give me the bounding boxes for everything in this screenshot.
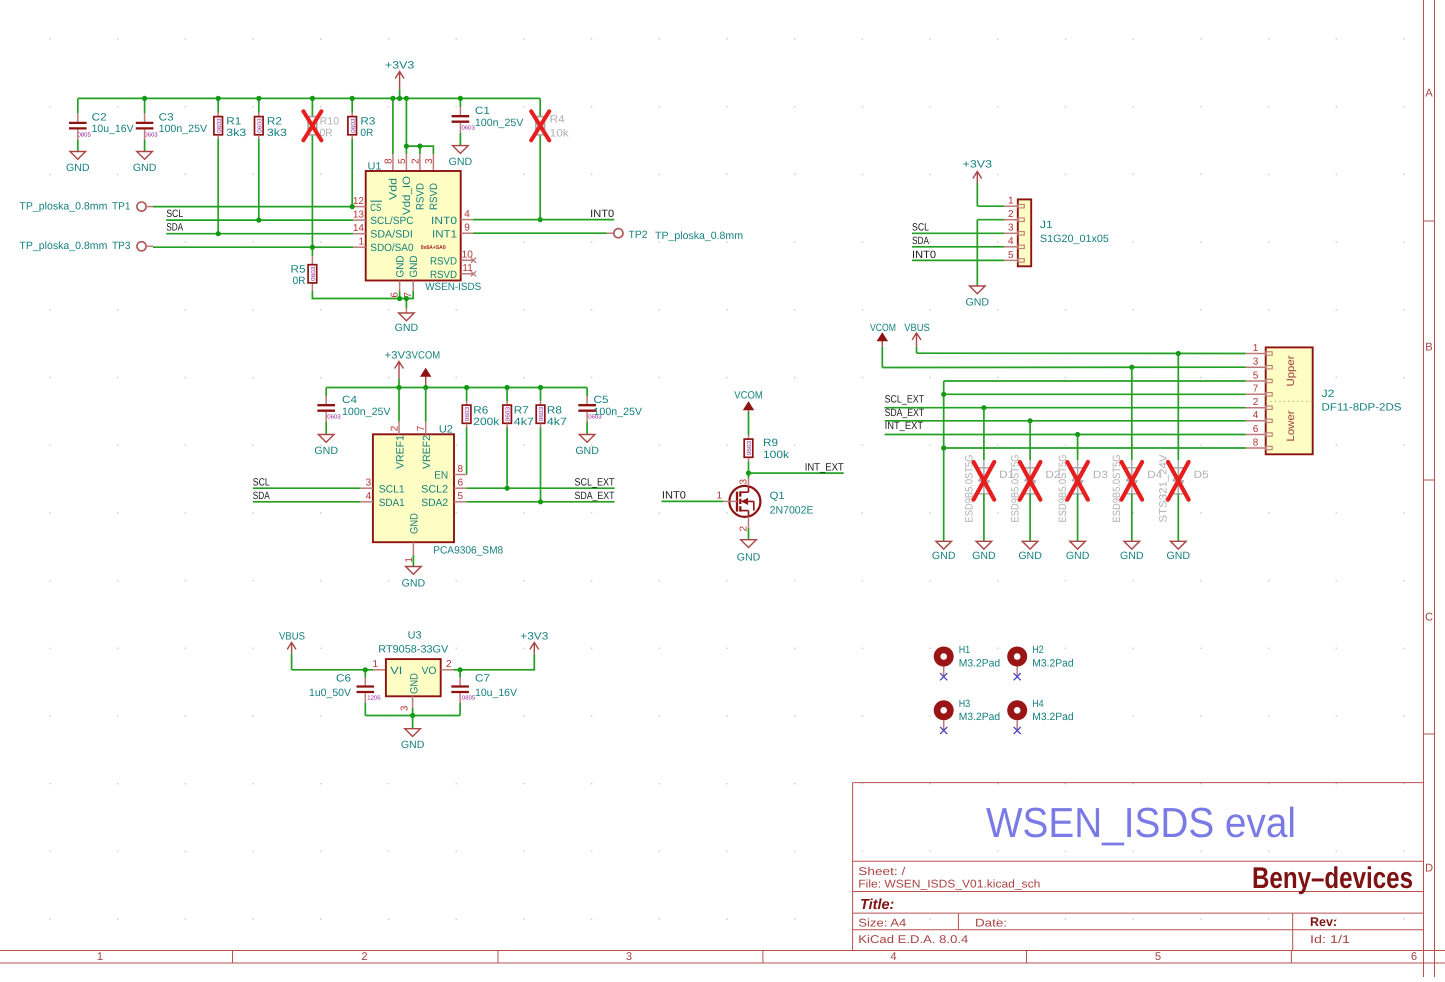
wire junction xyxy=(404,296,409,301)
wire R9 to Q1 drain xyxy=(748,473,750,478)
svg-text:2: 2 xyxy=(410,158,421,164)
resistor R2 3k3 xyxy=(258,98,260,112)
svg-text:File: WSEN_ISDS_V01.kicad_sch: File: WSEN_ISDS_V01.kicad_sch xyxy=(858,878,1040,890)
svg-text:C1: C1 xyxy=(475,105,490,117)
svg-text:GND: GND xyxy=(1167,550,1191,562)
svg-text:GND: GND xyxy=(449,156,473,168)
wire junction xyxy=(505,486,510,491)
svg-text:TP_ploska_0.8mm: TP_ploska_0.8mm xyxy=(19,240,107,252)
svg-text:2: 2 xyxy=(361,951,367,963)
svg-text:4k7: 4k7 xyxy=(547,416,567,428)
svg-text:9: 9 xyxy=(464,223,470,234)
wire R6 to EN xyxy=(466,428,468,475)
svg-text:4: 4 xyxy=(366,491,372,502)
svg-text:12: 12 xyxy=(353,196,365,207)
connector J2 DF11-8DP-2DS xyxy=(1266,347,1313,454)
svg-text:GND: GND xyxy=(66,162,90,174)
svg-text:SDO/SA0: SDO/SA0 xyxy=(370,242,413,254)
wire junction xyxy=(417,144,422,149)
wire junction xyxy=(505,385,510,390)
transistor Q1 2N7002E xyxy=(729,486,760,517)
wire junction xyxy=(410,713,415,718)
resistor R3 0R xyxy=(351,98,353,112)
svg-text:SDA2: SDA2 xyxy=(421,497,448,509)
svg-text:M3.2Pad: M3.2Pad xyxy=(1032,711,1074,723)
wire SDA (J1) xyxy=(912,246,1004,248)
svg-text:0603: 0603 xyxy=(216,118,223,133)
svg-text:GND: GND xyxy=(575,445,599,457)
svg-text:+3V3: +3V3 xyxy=(385,350,412,362)
svg-text:TP1: TP1 xyxy=(112,200,131,212)
U1 left pins 12,13,14,1 xyxy=(353,206,366,208)
svg-text:C: C xyxy=(1425,612,1433,624)
wire +3V3 top rail xyxy=(78,97,540,99)
capacitor C2 xyxy=(77,98,79,113)
svg-text:GND: GND xyxy=(401,739,425,751)
resistor R7 4k7 xyxy=(506,388,508,402)
resistor R1 3k3 xyxy=(217,98,219,112)
svg-text:INT0: INT0 xyxy=(590,208,614,220)
svg-text:100n_25V: 100n_25V xyxy=(594,406,643,418)
svg-text:R6: R6 xyxy=(473,404,488,416)
svg-text:M3.2Pad: M3.2Pad xyxy=(1032,657,1074,669)
svg-text:RSVD: RSVD xyxy=(415,183,427,210)
svg-text:GND: GND xyxy=(408,255,420,277)
svg-text:VBUS: VBUS xyxy=(279,631,305,643)
ground GND (D3) xyxy=(1070,541,1086,549)
svg-text:C2: C2 xyxy=(92,112,107,124)
diode D5 STS321_24V (DNP) xyxy=(1177,354,1179,461)
svg-text:0603: 0603 xyxy=(746,440,753,455)
svg-text:0603: 0603 xyxy=(327,413,341,420)
svg-text:VBUS: VBUS xyxy=(904,322,930,334)
wire J2 pin1 (VBUS) xyxy=(917,352,1246,354)
svg-text:GND: GND xyxy=(133,162,157,174)
svg-text:4: 4 xyxy=(1008,236,1014,247)
svg-text:7: 7 xyxy=(1253,384,1259,395)
svg-text:0603: 0603 xyxy=(350,118,357,133)
power +3V3 (top) xyxy=(399,89,401,98)
svg-text:SDA/SDI: SDA/SDI xyxy=(370,229,413,241)
testpoint TP1 xyxy=(137,202,146,211)
svg-text:13: 13 xyxy=(353,209,365,220)
svg-text:4: 4 xyxy=(464,209,470,220)
svg-text:J1: J1 xyxy=(1040,219,1053,231)
mounting hole H4 M3.2Pad xyxy=(1007,700,1027,720)
U2 left pins 3,4 xyxy=(360,487,373,489)
wire INT1 to TP2 xyxy=(473,232,607,234)
svg-text:8: 8 xyxy=(1253,437,1259,448)
mounting hole H2 M3.2Pad xyxy=(1007,647,1027,667)
svg-text:C3: C3 xyxy=(159,112,174,124)
wire junction xyxy=(464,385,469,390)
svg-text:GND: GND xyxy=(966,297,990,309)
IC U3 RT9058-33GV xyxy=(386,659,441,696)
capacitor C5 xyxy=(586,388,588,397)
svg-text:Upper: Upper xyxy=(1285,355,1297,387)
svg-text:C4: C4 xyxy=(342,394,357,406)
ground GND (J2 bus) xyxy=(936,541,952,549)
svg-text:0x6A+SA0: 0x6A+SA0 xyxy=(421,245,446,251)
wire INT0 (J1) xyxy=(912,259,1004,261)
wire junction xyxy=(1075,432,1080,437)
wire junction xyxy=(390,96,395,101)
wire junction xyxy=(404,96,409,101)
svg-text:Vdd: Vdd xyxy=(388,178,400,200)
svg-text:SDA1: SDA1 xyxy=(379,497,405,509)
resistor R5 0R xyxy=(311,247,313,256)
svg-text:SCL1: SCL1 xyxy=(379,484,405,496)
svg-text:1: 1 xyxy=(372,659,378,670)
svg-text:INT1: INT1 xyxy=(432,229,457,241)
svg-text:B: B xyxy=(1425,342,1432,354)
ground GND (D2) xyxy=(1022,541,1038,549)
wire U1 GND pins to ground xyxy=(399,281,401,291)
wire junction xyxy=(1129,365,1134,370)
wire junction xyxy=(981,405,986,410)
svg-text:3: 3 xyxy=(626,951,632,963)
svg-text:10u_16V: 10u_16V xyxy=(475,687,518,699)
connector J1 S1G20_01x05 xyxy=(1018,199,1031,266)
svg-text:8: 8 xyxy=(383,158,394,164)
wire junction xyxy=(746,471,751,476)
wire junction xyxy=(404,144,409,149)
svg-text:4: 4 xyxy=(1253,410,1259,421)
svg-text:RT9058-33GV: RT9058-33GV xyxy=(378,644,449,656)
wire junction xyxy=(397,296,402,301)
J1 pin stubs xyxy=(1004,205,1018,207)
svg-text:INT0: INT0 xyxy=(662,490,686,502)
svg-text:D: D xyxy=(1425,863,1433,875)
wire junction xyxy=(310,245,315,250)
ground GND (C5) xyxy=(579,435,595,443)
svg-text:H2: H2 xyxy=(1032,644,1044,656)
capacitor C3 xyxy=(144,98,146,113)
ground GND (C2) xyxy=(70,152,86,160)
wire junction xyxy=(216,96,221,101)
svg-text:S1G20_01x05: S1G20_01x05 xyxy=(1040,233,1109,245)
svg-text:GND: GND xyxy=(932,550,956,562)
svg-text:H3: H3 xyxy=(959,698,971,710)
svg-text:3k3: 3k3 xyxy=(226,127,246,139)
svg-text:M3.2Pad: M3.2Pad xyxy=(959,657,1001,669)
svg-text:SDA_EXT: SDA_EXT xyxy=(885,407,925,419)
svg-text:R4: R4 xyxy=(550,113,565,125)
ground GND (D4) xyxy=(1124,541,1140,549)
ground GND (U1) xyxy=(399,313,415,321)
svg-text:3: 3 xyxy=(400,705,411,711)
svg-text:0603: 0603 xyxy=(462,124,476,131)
svg-text:1: 1 xyxy=(358,236,364,247)
testpoint TP2 xyxy=(614,229,623,238)
ground GND (U2) xyxy=(406,567,422,575)
wire SCL (J1) xyxy=(912,232,1004,234)
wire SCL (U2) xyxy=(253,487,361,489)
svg-text:Q1: Q1 xyxy=(770,490,785,502)
svg-text:GND: GND xyxy=(972,550,996,562)
wire junction xyxy=(256,218,261,223)
svg-text:0805: 0805 xyxy=(462,695,476,702)
svg-text:100n_25V: 100n_25V xyxy=(342,406,391,418)
svg-text:0603: 0603 xyxy=(256,118,263,133)
ground GND (D1) xyxy=(976,541,992,549)
svg-text:1206: 1206 xyxy=(367,695,381,702)
ground GND (D5) xyxy=(1171,541,1187,549)
svg-text:SCL/SPC: SCL/SPC xyxy=(370,215,414,227)
Q1 source to GND xyxy=(748,517,750,528)
resistor R10 0R (DNP) xyxy=(311,98,313,247)
wire R7 to SCL2 xyxy=(506,428,508,489)
svg-text:VCOM: VCOM xyxy=(870,322,896,334)
wire SCL_EXT (U2 side) xyxy=(467,487,615,489)
svg-text:WSEN_ISDS eval: WSEN_ISDS eval xyxy=(986,799,1296,846)
power +3V3 (U3) xyxy=(530,642,539,653)
wire INT_EXT xyxy=(749,472,844,474)
svg-text:1: 1 xyxy=(1008,196,1014,207)
diode D2 ESD9B5.0ST5G (DNP) xyxy=(1029,421,1031,460)
svg-text:14: 14 xyxy=(353,223,365,234)
svg-text:Beny–devices: Beny–devices xyxy=(1252,862,1413,895)
wire junction xyxy=(363,667,368,672)
IC U2 PCA9306_SM8 xyxy=(373,434,454,542)
resistor R6 200k xyxy=(466,388,468,402)
svg-text:2: 2 xyxy=(390,425,401,431)
U3 VO wire to +3V3 xyxy=(441,669,454,671)
svg-text:0R: 0R xyxy=(360,127,373,139)
svg-text:M3.2Pad: M3.2Pad xyxy=(959,711,1001,723)
svg-text:GND: GND xyxy=(1018,550,1042,562)
svg-text:R10: R10 xyxy=(320,115,340,127)
svg-text:CS: CS xyxy=(370,202,381,214)
U2 right pins 8,6,5 xyxy=(454,474,467,476)
svg-text:6: 6 xyxy=(458,478,464,489)
wire junction xyxy=(458,96,463,101)
svg-text:+3V3: +3V3 xyxy=(520,631,548,643)
svg-text:SDA: SDA xyxy=(166,222,184,234)
svg-text:Id: 1/1: Id: 1/1 xyxy=(1310,934,1350,946)
svg-text:5: 5 xyxy=(1253,370,1259,381)
svg-text:INT0: INT0 xyxy=(912,249,936,261)
svg-text:7: 7 xyxy=(416,425,427,431)
wire junction xyxy=(396,385,401,390)
wire junction xyxy=(1176,351,1181,356)
svg-text:J2: J2 xyxy=(1322,388,1335,400)
wire U1 Vdd pin8 to rail xyxy=(392,98,394,154)
svg-text:3: 3 xyxy=(1008,223,1014,234)
wire U1 Vdd_IO pin5 to rail xyxy=(405,98,407,154)
svg-text:TP_ploska_0.8mm: TP_ploska_0.8mm xyxy=(655,230,743,242)
wire junction xyxy=(941,392,946,397)
svg-text:TP3: TP3 xyxy=(112,240,131,252)
wire R8 to SDA2 xyxy=(540,428,542,502)
title block xyxy=(853,783,1424,951)
svg-text:VI: VI xyxy=(390,665,402,677)
svg-text:SCL: SCL xyxy=(253,477,270,489)
svg-text:3: 3 xyxy=(1253,357,1259,368)
svg-text:H1: H1 xyxy=(959,644,971,656)
resistor R9 100k xyxy=(748,412,750,435)
no-connect x pins 10,11 xyxy=(471,258,476,263)
wire junction xyxy=(941,445,946,450)
svg-text:H4: H4 xyxy=(1032,698,1044,710)
svg-text:5: 5 xyxy=(1155,951,1161,963)
svg-text:SDA_EXT: SDA_EXT xyxy=(575,490,615,502)
wire junction xyxy=(1028,418,1033,423)
svg-text:VO: VO xyxy=(422,665,437,677)
svg-text:0603: 0603 xyxy=(144,132,158,139)
svg-text:2: 2 xyxy=(1008,209,1014,220)
wire junction xyxy=(216,231,221,236)
wire J2 pin8 xyxy=(944,447,1246,449)
wire SCL xyxy=(166,219,353,221)
svg-text:VREF2: VREF2 xyxy=(421,435,433,469)
testpoint TP3 xyxy=(137,242,146,251)
wire J2 ground bus vertical xyxy=(943,381,945,541)
svg-text:A: A xyxy=(1425,88,1433,100)
U2 GND pin 1 xyxy=(412,542,414,555)
svg-text:VREF1: VREF1 xyxy=(394,435,406,469)
U1 right pins 4,9,10,11 xyxy=(461,219,473,221)
U3 GND pin 3 wire xyxy=(412,696,414,708)
svg-text:SDA: SDA xyxy=(253,490,271,502)
svg-text:RSVD: RSVD xyxy=(428,183,440,210)
diode D3 ESD9B5.0ST5G (DNP) xyxy=(1077,435,1079,461)
svg-text:KiCad E.D.A. 8.0.4: KiCad E.D.A. 8.0.4 xyxy=(858,934,968,946)
svg-text:RSVD: RSVD xyxy=(430,269,457,281)
svg-text:VCOM: VCOM xyxy=(412,350,441,362)
ground GND (U3) xyxy=(405,729,421,737)
svg-text:R2: R2 xyxy=(267,115,282,127)
power VCOM (U2) xyxy=(425,369,427,388)
svg-text:TP2: TP2 xyxy=(629,229,648,241)
svg-text:GND: GND xyxy=(395,322,419,334)
wire INT0 xyxy=(473,219,614,221)
svg-text:Sheet: /: Sheet: / xyxy=(858,866,906,878)
svg-text:Lower: Lower xyxy=(1285,410,1297,442)
svg-text:Size: A4: Size: A4 xyxy=(858,917,906,929)
wire J1 pin2 to GND xyxy=(977,219,1004,221)
svg-text:0603: 0603 xyxy=(464,406,471,421)
svg-text:D5: D5 xyxy=(1194,469,1209,481)
svg-text:SCL2: SCL2 xyxy=(421,484,448,496)
svg-text:5: 5 xyxy=(458,491,464,502)
svg-text:0603: 0603 xyxy=(310,266,317,281)
svg-text:VCOM: VCOM xyxy=(734,389,763,401)
svg-text:SDA: SDA xyxy=(912,235,930,247)
U2 top pins 2,7 xyxy=(398,388,400,422)
svg-text:GND: GND xyxy=(1066,550,1090,562)
svg-text:3: 3 xyxy=(738,479,749,485)
svg-text:5: 5 xyxy=(397,158,408,164)
svg-text:GND: GND xyxy=(737,552,761,564)
wire VCOM mid rail xyxy=(326,387,587,389)
svg-text:1u0_50V: 1u0_50V xyxy=(309,687,352,699)
svg-text:1: 1 xyxy=(716,491,722,502)
svg-text:3: 3 xyxy=(366,478,372,489)
svg-text:2N7002E: 2N7002E xyxy=(770,504,814,516)
svg-text:Title:: Title: xyxy=(860,897,895,913)
svg-text:+3V3: +3V3 xyxy=(385,59,415,71)
svg-text:R5: R5 xyxy=(291,263,306,275)
wire RSVD tie (pins 2,3 to Vdd_IO) xyxy=(406,146,433,154)
svg-text:GND: GND xyxy=(408,673,420,694)
wire junction xyxy=(142,96,147,101)
svg-text:0603: 0603 xyxy=(505,406,512,421)
wire junction xyxy=(423,385,428,390)
svg-text:1: 1 xyxy=(97,951,103,963)
svg-text:WSEN-ISDS: WSEN-ISDS xyxy=(425,281,481,293)
svg-text:U1: U1 xyxy=(368,161,382,173)
svg-text:2: 2 xyxy=(446,659,452,670)
mounting hole H3 M3.2Pad xyxy=(934,700,954,720)
svg-text:R1: R1 xyxy=(226,115,241,127)
svg-text:GND: GND xyxy=(402,578,426,590)
capacitor C4 xyxy=(325,388,327,397)
wire VBUS to U3 VI xyxy=(292,669,374,671)
wire junction xyxy=(310,96,315,101)
svg-text:SCL_EXT: SCL_EXT xyxy=(885,394,925,406)
svg-text:3k3: 3k3 xyxy=(267,127,287,139)
wire J1 pin1 to +3V3 xyxy=(977,205,1004,207)
svg-text:4: 4 xyxy=(890,951,896,963)
svg-text:R9: R9 xyxy=(763,437,778,449)
svg-text:PCA9306_SM8: PCA9306_SM8 xyxy=(433,545,503,557)
wire U3 ground rail xyxy=(365,715,460,717)
ground GND (C1) xyxy=(453,146,469,154)
wire junction xyxy=(538,385,543,390)
svg-text:200k: 200k xyxy=(473,416,500,428)
svg-text:R3: R3 xyxy=(360,115,375,127)
svg-text:+3V3: +3V3 xyxy=(963,159,993,171)
svg-text:GND: GND xyxy=(314,445,338,457)
svg-text:0R: 0R xyxy=(293,275,306,287)
wire junction xyxy=(350,96,355,101)
diode D4 ESD9B5.0ST5G (DNP) xyxy=(1131,367,1133,460)
svg-text:6: 6 xyxy=(1253,424,1259,435)
svg-text:100n_25V: 100n_25V xyxy=(159,123,208,135)
svg-text:5: 5 xyxy=(1008,250,1014,261)
svg-text:100n_25V: 100n_25V xyxy=(475,117,524,129)
wire J2 pin3 (VCOM) xyxy=(882,366,1245,368)
svg-text:RSVD: RSVD xyxy=(430,256,457,268)
wire junction xyxy=(538,217,543,222)
wire TP1 to U1 CS xyxy=(153,206,353,208)
svg-text:R7: R7 xyxy=(514,404,529,416)
capacitor C1 xyxy=(459,98,461,107)
svg-text:INT_EXT: INT_EXT xyxy=(805,461,844,473)
svg-text:U2: U2 xyxy=(439,424,453,436)
ground GND (C3) xyxy=(137,152,153,160)
resistor R8 4k7 xyxy=(540,388,542,402)
svg-text:C6: C6 xyxy=(336,673,351,685)
wire junction xyxy=(538,499,543,504)
IC U1 WSEN-ISDS xyxy=(366,171,461,281)
J2 pin stubs xyxy=(1246,353,1266,355)
svg-text:6: 6 xyxy=(1411,951,1417,963)
svg-text:GND: GND xyxy=(395,255,407,277)
svg-text:GND: GND xyxy=(409,513,421,534)
svg-text:10u_16V: 10u_16V xyxy=(92,123,135,135)
svg-text:DF11-8DP-2DS: DF11-8DP-2DS xyxy=(1322,401,1402,413)
svg-text:10k: 10k xyxy=(550,127,570,139)
svg-text:R8: R8 xyxy=(547,404,562,416)
wire J2 pin5 xyxy=(944,380,1246,382)
svg-text:SCL_EXT: SCL_EXT xyxy=(575,477,615,489)
wire junction xyxy=(397,96,402,101)
wire J2 pin7 xyxy=(944,393,1246,395)
svg-text:INT0: INT0 xyxy=(431,215,457,227)
power VCOM (Q1) xyxy=(748,402,750,412)
